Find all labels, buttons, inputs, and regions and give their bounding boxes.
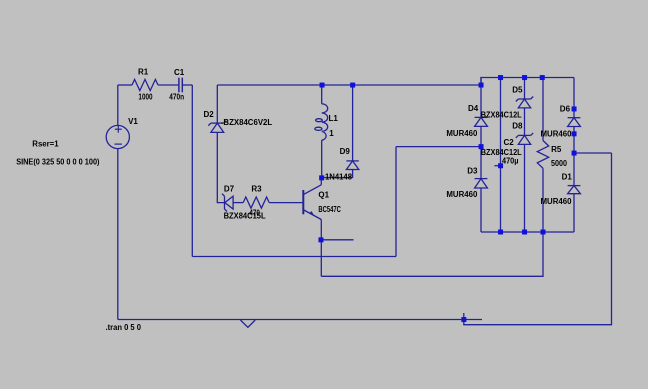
wire D4 to D3: [480, 126, 482, 178]
wire C2 stub: [494, 165, 500, 167]
wire loop right vertical: [395, 147, 397, 257]
svg-text:1N4148: 1N4148: [325, 173, 353, 182]
wire D1 node to right column: [574, 152, 612, 154]
wire bridge top rail: [481, 78, 574, 86]
wire R5 bottom: [542, 168, 544, 232]
diode D9: [346, 161, 358, 170]
resistor R3: [243, 197, 269, 208]
svg-text:R5: R5: [551, 145, 562, 154]
svg-text:V1: V1: [128, 117, 138, 126]
svg-text:470µ: 470µ: [502, 157, 519, 166]
capacitor C1: [179, 78, 182, 93]
node D9 top rail: [350, 83, 355, 88]
svg-text:BC547C: BC547C: [318, 205, 341, 214]
svg-text:D9: D9: [340, 147, 351, 156]
wire R5 column top: [542, 78, 544, 141]
wire V1 bottom: [117, 149, 119, 320]
wire emitter stub right: [321, 239, 354, 241]
wire D2 to D7 corner: [217, 132, 224, 202]
wire V1 top: [117, 85, 119, 125]
node R5 top: [540, 75, 545, 80]
svg-text:Q1: Q1: [318, 191, 329, 200]
wire R3 to Q1 base: [269, 202, 302, 204]
wire D4 column top: [480, 78, 482, 118]
wire D5 to D8: [524, 108, 526, 135]
zener D2: [208, 121, 226, 133]
inductor L1: [322, 104, 328, 141]
svg-text:5000: 5000: [551, 159, 567, 168]
wire L1 bottom: [321, 140, 323, 178]
svg-text:D8: D8: [512, 122, 523, 131]
svg-text:MUR460: MUR460: [446, 190, 478, 199]
node R5 bottom: [541, 230, 546, 235]
wire D3 bottom: [480, 188, 482, 232]
wire left loop vertical: [191, 85, 193, 257]
wire R1 to C1: [158, 84, 178, 86]
diode D4: [475, 117, 488, 126]
zener D8: [516, 133, 533, 145]
node bridge left top: [479, 83, 484, 88]
svg-text:470n: 470n: [169, 93, 184, 102]
svg-text:L1: L1: [329, 114, 339, 123]
svg-text:MUR460: MUR460: [541, 129, 573, 138]
node D6 cathode: [572, 131, 577, 136]
wire D6 column top: [573, 78, 575, 118]
ground: [241, 320, 256, 327]
node C2 bottom: [498, 230, 503, 235]
node emitter stub: [318, 237, 323, 242]
transistor Q1: [303, 185, 321, 220]
svg-text:R3: R3: [251, 185, 262, 194]
node D8 bottom: [522, 230, 527, 235]
svg-text:C1: C1: [174, 68, 185, 77]
voltage source V1: [106, 125, 129, 148]
node C2 mid: [498, 163, 503, 168]
wire loop to bridge node: [396, 146, 481, 148]
svg-text:D5: D5: [512, 86, 523, 95]
wire top rail V1 to R1: [118, 84, 132, 86]
svg-text:1: 1: [329, 129, 334, 138]
wire D9 top: [352, 85, 354, 161]
wire D8 bottom: [524, 144, 526, 232]
wire ground rail: [118, 319, 482, 321]
svg-text:C2: C2: [504, 138, 515, 147]
wire top rail 2: [217, 84, 481, 86]
svg-text:MUR460: MUR460: [541, 197, 573, 206]
svg-text:1000: 1000: [138, 93, 153, 102]
svg-text:BZX84C12L: BZX84C12L: [481, 111, 522, 120]
wire node to D9: [322, 170, 353, 178]
diode D1: [568, 186, 581, 194]
wire D1 bottom: [573, 194, 575, 232]
wire D7 to R3: [233, 202, 243, 204]
zener D7: [222, 194, 233, 212]
node D1 top: [572, 151, 577, 156]
node ground return: [461, 317, 466, 322]
node D6 anode: [572, 106, 577, 111]
wire D5 D8 column top: [524, 78, 526, 100]
node C2 top: [498, 75, 503, 80]
node collector L1 D9: [319, 175, 324, 180]
node D5 top: [522, 75, 527, 80]
wire emitter to R5 column: [321, 232, 543, 276]
wire D6 to D1: [573, 127, 575, 186]
svg-text:D2: D2: [204, 110, 215, 119]
svg-text:D3: D3: [467, 166, 478, 175]
wire bridge bottom rail: [481, 231, 574, 233]
svg-text:D1: D1: [562, 173, 573, 182]
node D4 D3 mid: [479, 144, 484, 149]
svg-text:D4: D4: [468, 104, 479, 113]
resistor R1: [132, 79, 158, 90]
zener D5: [516, 97, 533, 108]
svg-text:MUR460: MUR460: [446, 129, 478, 138]
wire C2 column: [500, 78, 502, 233]
wire stub above ground junction: [463, 313, 465, 320]
svg-text:-BZX84C6V2L: -BZX84C6V2L: [221, 118, 273, 127]
svg-text:SINE(0 325 50 0 0 0 100): SINE(0 325 50 0 0 0 100): [16, 157, 100, 166]
wire L1 top: [321, 85, 323, 104]
diode D6: [568, 118, 581, 127]
wire bottom loop horizontal: [192, 256, 396, 258]
wire Q1 emitter down: [320, 220, 322, 277]
svg-text:.tran 0 5 0: .tran 0 5 0: [106, 323, 142, 332]
svg-text:D6: D6: [560, 105, 571, 114]
svg-text:BZX84C15L: BZX84C15L: [224, 212, 266, 221]
svg-text:Rser=1: Rser=1: [32, 140, 59, 149]
wire C1 to corner: [183, 84, 192, 86]
diode D3: [475, 179, 488, 188]
wire D2 column upper: [216, 85, 218, 123]
svg-text:R1: R1: [138, 68, 149, 77]
resistor R5: [537, 141, 548, 169]
node L1 top rail: [320, 83, 325, 88]
svg-text:D7: D7: [224, 185, 235, 194]
wire Q1 collector up: [320, 178, 322, 185]
wire bottom right return: [464, 153, 612, 325]
